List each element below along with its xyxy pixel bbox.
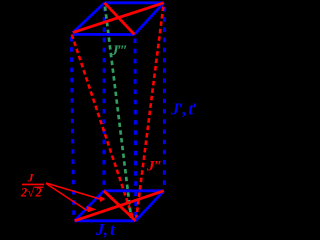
arrowhead pointing at diagonal TL-BR: [99, 196, 105, 202]
wire: red dashed diagonal D-BR (J'' bond front face): [72, 35, 133, 220]
wire: blue dotted vertical edge A-TL: [102, 7, 105, 188]
wire: red dashed diagonal B-BR (J'' bond right face): [136, 7, 163, 219]
arrowhead pointing at diagonal BL-TR: [87, 206, 97, 213]
svg-text:J″: J″: [146, 159, 162, 175]
wire: leader line from J/2sqrt2 label to lower X arrow: [46, 184, 87, 211]
wire: leader line from J/2sqrt2 label to upper X arrow: [46, 183, 100, 199]
wire: red diagonal BL-TR of bottom face (J/2sqrt2 bond): [75, 191, 164, 221]
wire: blue dotted vertical edge B-TR: [163, 7, 166, 188]
wire: red diagonal A-C of top face (J/2sqrt2 bond): [105, 3, 135, 35]
wire: blue dotted vertical edge D-BL: [71, 37, 74, 217]
wire: blue dotted vertical edge C-BR: [134, 39, 138, 218]
wire: red diagonal D-B of top face (J/2sqrt2 bond): [73, 3, 164, 33]
svg-text:J′′′: J′′′: [110, 43, 127, 59]
svg-text:J, t: J, t: [95, 220, 115, 239]
node: top face square ring (J,t bonds) blue edges A-B-C-D: [73, 3, 164, 35]
svg-text:J: J: [27, 171, 35, 185]
node: bottom face square ring (J,t bonds) blue edges TL-TR-BR-BL: [75, 191, 164, 221]
label J/2sqrt2 (diagonal ring bonds), fraction: [20, 171, 44, 200]
svg-text:J′, t′: J′, t′: [170, 100, 196, 119]
wire: red diagonal TL-BR of bottom face (J/2sqrt2 bond): [104, 191, 136, 221]
wire: green dashed diagonal A-BR (J''' bond): [105, 7, 131, 219]
svg-text:2√: 2√: [20, 186, 34, 200]
